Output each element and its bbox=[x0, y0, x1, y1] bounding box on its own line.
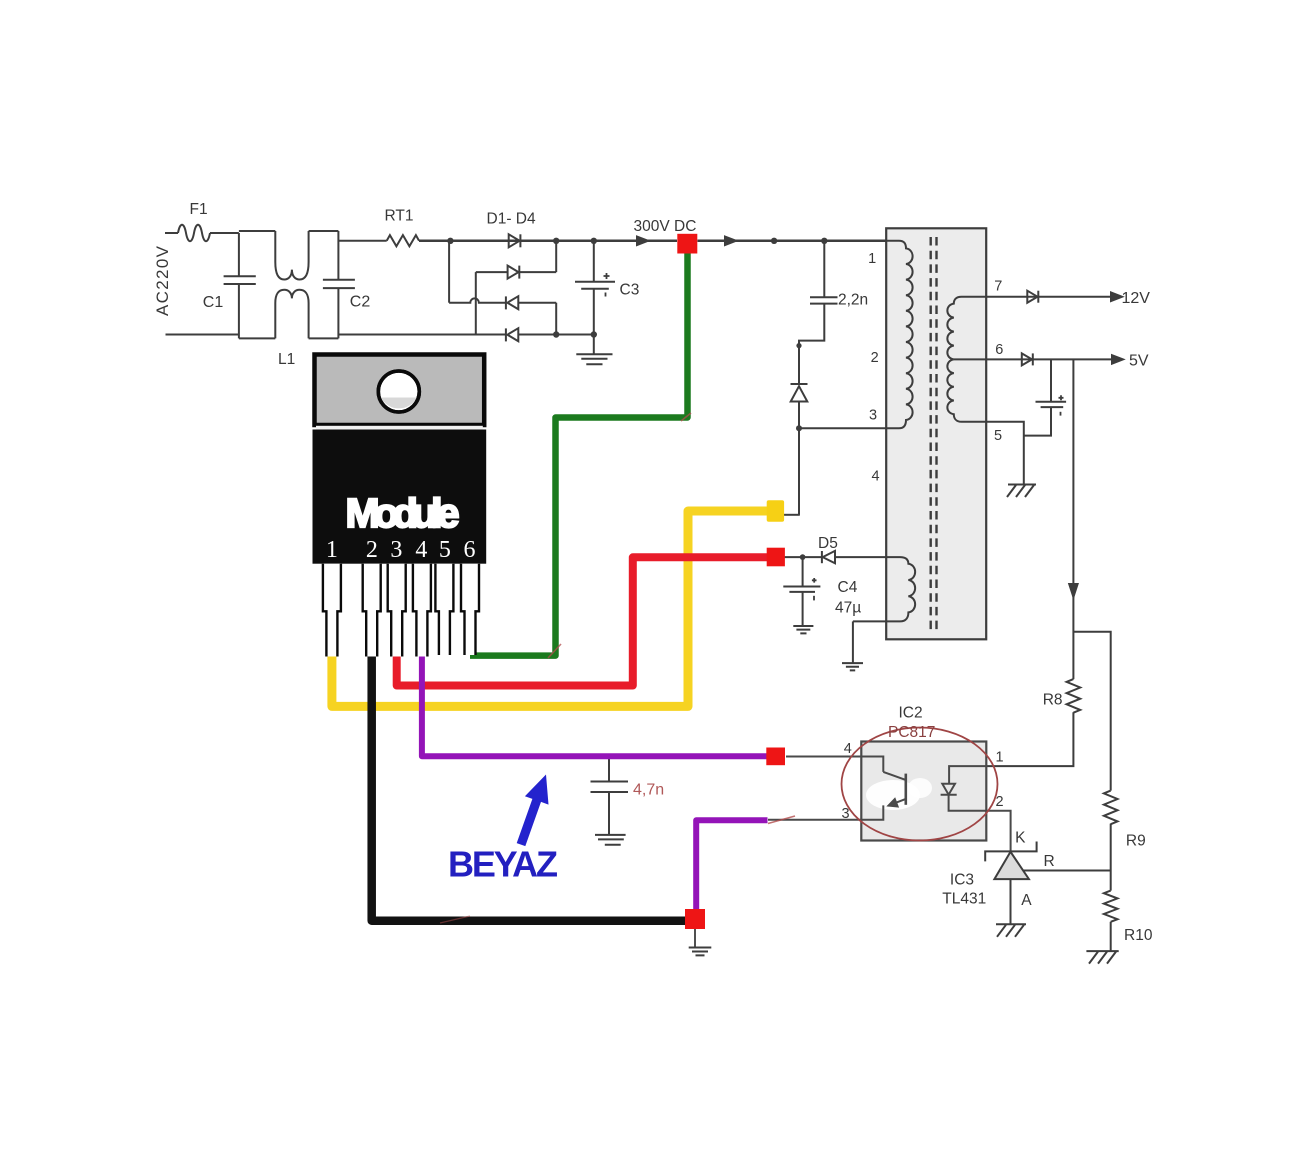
ground below C3 bbox=[576, 335, 612, 365]
resistor R8 bbox=[1067, 679, 1081, 713]
junction snubber step bbox=[796, 343, 801, 348]
svg-text:3: 3 bbox=[869, 408, 877, 424]
module tab-body white gap bbox=[316, 426, 483, 430]
capacitor C1 bbox=[224, 276, 256, 284]
pen mark near opto pin3 wire bbox=[768, 816, 795, 824]
capacitor C4 electrolytic bbox=[783, 557, 820, 600]
resistor R10 bbox=[1104, 891, 1118, 922]
svg-text:IC3: IC3 bbox=[950, 872, 974, 889]
diode D6 12V bbox=[1027, 291, 1038, 303]
ground hatched TL431 anode bbox=[996, 924, 1026, 937]
svg-text:3: 3 bbox=[390, 537, 402, 563]
svg-text:IC2: IC2 bbox=[899, 705, 923, 722]
diode D2 bbox=[508, 266, 520, 279]
TL431 cathode bar bbox=[985, 842, 1036, 862]
wire TL431 anode bbox=[1010, 879, 1012, 924]
svg-text:D1- D4: D1- D4 bbox=[487, 211, 536, 228]
ground hatched below R10 bbox=[1086, 951, 1118, 964]
pen mark near pin6 bbox=[548, 644, 561, 658]
wire opto pin4 bbox=[786, 757, 883, 772]
module mounting hole bbox=[378, 371, 419, 412]
wire TL431 R pin bbox=[1023, 870, 1110, 872]
junction bridge bottom right bbox=[553, 331, 559, 337]
junction C3 top bbox=[591, 238, 597, 244]
node 300V DC red square bbox=[677, 234, 697, 254]
svg-text:2: 2 bbox=[996, 794, 1004, 810]
wire 300V node to transformer bbox=[698, 240, 887, 243]
wire 5V output bbox=[986, 358, 1112, 360]
module body bbox=[313, 430, 487, 564]
TL431 IC3 triangle bbox=[994, 852, 1029, 879]
opto LED bbox=[941, 784, 957, 795]
arrow on feedback wire bbox=[1069, 584, 1077, 597]
svg-text:6: 6 bbox=[995, 342, 1003, 358]
wire purple opto pin3 to ground node bbox=[696, 820, 767, 915]
diode D1 bbox=[509, 234, 521, 247]
svg-text:5: 5 bbox=[994, 428, 1002, 444]
svg-text:4: 4 bbox=[844, 741, 852, 757]
node red ground square bbox=[685, 909, 705, 929]
wire opto pin2 bbox=[949, 795, 1011, 852]
transformer primary winding bbox=[886, 241, 912, 428]
ground below 4.7n bbox=[595, 835, 626, 845]
svg-text:2: 2 bbox=[871, 350, 879, 366]
white highlight blob bbox=[866, 780, 920, 810]
node red D5 square bbox=[767, 548, 785, 567]
svg-text:R10: R10 bbox=[1124, 927, 1153, 944]
module lead 4 bbox=[413, 564, 431, 657]
svg-text:R9: R9 bbox=[1126, 833, 1146, 850]
svg-text:C4: C4 bbox=[838, 579, 858, 596]
wire bridge right vertical bottom bbox=[555, 303, 557, 335]
transformer T1 body bbox=[886, 228, 986, 639]
wire L1 to RT1 bbox=[338, 240, 386, 242]
svg-text:RT1: RT1 bbox=[385, 208, 414, 225]
wire red pin3 to D5 node bbox=[397, 557, 770, 685]
diode D5 bbox=[822, 551, 835, 563]
svg-text:Module: Module bbox=[346, 490, 460, 536]
svg-text:K: K bbox=[1015, 830, 1026, 847]
wire 12V output bbox=[986, 296, 1111, 298]
wire branch to R9 bbox=[1073, 632, 1110, 791]
wire yellow blob link bbox=[784, 514, 800, 516]
svg-text:3: 3 bbox=[842, 806, 850, 822]
node yellow blob bbox=[767, 500, 784, 522]
opto phototransistor collector bbox=[883, 772, 905, 780]
arrow 5V bbox=[1112, 355, 1123, 364]
svg-text:5V: 5V bbox=[1129, 353, 1149, 370]
junction C3 bottom bbox=[591, 331, 597, 337]
wire black pin2 to ground node bbox=[372, 652, 688, 921]
module U1 TO-220 package tab bbox=[315, 355, 485, 426]
junction C4 top bbox=[800, 554, 806, 560]
wire green pin6 to 300V node bbox=[470, 248, 688, 656]
snubber diode bbox=[791, 384, 808, 402]
thermistor RT1 bbox=[387, 235, 419, 246]
opto emitter arrow bbox=[889, 799, 898, 806]
svg-text:1: 1 bbox=[868, 251, 876, 267]
wire bridge inner vertical bbox=[475, 272, 477, 334]
svg-text:4,7n: 4,7n bbox=[633, 782, 664, 799]
arrow after 300V node bbox=[725, 237, 736, 245]
svg-text:2: 2 bbox=[366, 537, 378, 563]
wire bridge bottom row bbox=[338, 334, 593, 336]
ground below black-wire node bbox=[689, 929, 712, 955]
diode D3 bbox=[506, 296, 518, 309]
svg-text:5: 5 bbox=[439, 537, 451, 563]
svg-text:R: R bbox=[1044, 853, 1055, 870]
wire snubber diode to pin3 node bbox=[798, 402, 800, 429]
arrow 12V bbox=[1111, 293, 1122, 302]
capacitor C3 electrolytic bbox=[575, 241, 615, 335]
svg-text:4: 4 bbox=[872, 469, 880, 485]
svg-text:12V: 12V bbox=[1122, 290, 1151, 307]
wire bridge left vertical bbox=[448, 241, 450, 303]
wire R8 to opto pin1 bbox=[986, 712, 1073, 766]
svg-text:2,2n: 2,2n bbox=[838, 292, 868, 309]
svg-text:D5: D5 bbox=[818, 535, 838, 552]
svg-text:7: 7 bbox=[994, 279, 1002, 295]
capacitor C5 5V output electrolytic bbox=[1024, 359, 1066, 435]
arrow on 300V wire bbox=[637, 237, 648, 245]
svg-text:1: 1 bbox=[326, 537, 338, 563]
resistor R9 bbox=[1104, 791, 1118, 825]
wire trafo pin5 to ground bbox=[986, 422, 1024, 485]
arrow BEYAZ blue bbox=[517, 775, 549, 847]
svg-text:C2: C2 bbox=[350, 294, 371, 311]
wire opto pin3 bbox=[768, 805, 883, 819]
opto phototransistor emitter bbox=[889, 799, 906, 805]
svg-text:C3: C3 bbox=[620, 282, 640, 299]
wire feedback from 5V rail down bbox=[1072, 359, 1074, 679]
wire opto pin1 internal bbox=[949, 766, 986, 784]
wire D5 row bbox=[784, 556, 886, 558]
pen mark on black wire bbox=[440, 916, 470, 923]
transformer core bbox=[931, 237, 937, 630]
pen mark near green corner bbox=[681, 413, 691, 421]
wire R9 to R junction bbox=[1110, 824, 1112, 891]
wire 2.2n to snubber diode bbox=[799, 304, 824, 384]
wire fuse to L1 bbox=[210, 232, 239, 234]
wire AC line top-left to fuse bbox=[165, 232, 178, 234]
ground below C4 bbox=[793, 592, 813, 634]
diode D7 5V bbox=[1022, 353, 1033, 365]
svg-text:AC220V: AC220V bbox=[153, 245, 172, 316]
node red opto pin4 square bbox=[766, 748, 785, 766]
svg-text:C1: C1 bbox=[203, 294, 224, 311]
diode D4 bbox=[506, 328, 518, 341]
wire RT1 to bridge and 300V node bbox=[419, 240, 677, 243]
module lead 3 bbox=[388, 564, 406, 657]
svg-text:6: 6 bbox=[464, 537, 476, 563]
optocoupler IC2 body bbox=[861, 742, 986, 841]
capacitor 4.7n bbox=[591, 758, 629, 835]
wire D3 row with hop bbox=[449, 298, 556, 302]
transformer aux winding bbox=[853, 557, 915, 621]
wire AC line bottom-left bbox=[166, 334, 239, 336]
svg-text:F1: F1 bbox=[190, 201, 208, 218]
svg-text:R8: R8 bbox=[1043, 692, 1063, 709]
wire bridge right vertical top bbox=[555, 241, 557, 272]
wire 2.2n branch vertical bbox=[823, 241, 825, 297]
svg-text:1: 1 bbox=[996, 750, 1004, 766]
wire purple pin4 to opto pin4 node bbox=[422, 652, 770, 756]
inductor L1 common-mode choke bbox=[239, 231, 339, 338]
junction at RT1 output bbox=[447, 238, 453, 244]
wire D2 row bbox=[476, 271, 556, 273]
module lead 5 bbox=[435, 564, 453, 655]
svg-text:TL431: TL431 bbox=[942, 891, 986, 908]
transformer secondary winding bbox=[947, 297, 986, 422]
svg-text:PC817: PC817 bbox=[888, 724, 935, 741]
module lead 6 bbox=[461, 564, 479, 655]
wire trafo pin3 bbox=[799, 427, 886, 429]
capacitor 2.2n bbox=[810, 297, 838, 303]
module lead 1 bbox=[323, 564, 341, 657]
svg-text:47µ: 47µ bbox=[835, 600, 861, 617]
svg-text:4: 4 bbox=[415, 537, 427, 563]
junction pin3 node bbox=[796, 425, 802, 431]
svg-text:A: A bbox=[1021, 892, 1032, 909]
wire R10 to ground bbox=[1110, 922, 1112, 951]
ground hatched pin5 bbox=[1007, 485, 1036, 498]
svg-text:L1: L1 bbox=[278, 351, 295, 368]
opto phototransistor bar bbox=[904, 774, 907, 805]
ground below aux winding bbox=[842, 663, 863, 670]
junction 2.2n branch bbox=[821, 238, 827, 244]
red circle around IC2 bbox=[842, 728, 998, 841]
transformer secondary tap pin6 bbox=[954, 358, 987, 360]
fuse F1 bbox=[178, 225, 210, 242]
junction on 300V wire bbox=[771, 238, 777, 244]
capacitor C2 bbox=[323, 280, 355, 288]
wire aux winding to ground bbox=[852, 621, 854, 663]
svg-text:BEYAZ: BEYAZ bbox=[448, 844, 558, 885]
module lead 2 bbox=[363, 564, 381, 657]
wire yellow pin1 to source node bbox=[332, 511, 770, 706]
svg-text:300V DC: 300V DC bbox=[634, 218, 697, 235]
junction bridge top right bbox=[553, 238, 559, 244]
wire pin3 node down to drain link bbox=[798, 428, 800, 515]
